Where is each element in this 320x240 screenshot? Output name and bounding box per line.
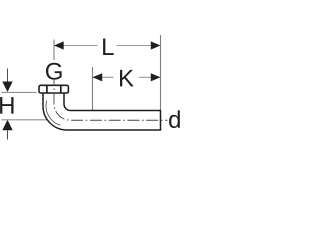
- nut face divider left: [46, 86, 48, 93]
- pipe bend body: [43, 93, 161, 130]
- wire L dimension line left segment: [54, 45, 98, 47]
- node L/K right extension line: [160, 35, 162, 111]
- label G: [46, 63, 62, 80]
- wire K dimension line right segment: [139, 76, 152, 78]
- wire H top extension line: [2, 91, 37, 93]
- label d: [169, 110, 180, 128]
- pipe inner wall thin arc: [46, 101, 60, 126]
- wire L dimension line right segment: [117, 45, 152, 47]
- centerline dash-dot axis: [54, 80, 168, 120]
- arrow L left: [54, 41, 64, 49]
- wire K dimension line left segment: [93, 76, 114, 78]
- arrow H down: [2, 82, 12, 93]
- arrow K left: [93, 73, 103, 81]
- label H: [0, 97, 13, 114]
- wire H bottom extension line: [2, 119, 60, 121]
- node K left extension line: [92, 67, 94, 122]
- nut G body: [39, 85, 68, 93]
- arrow H up: [2, 120, 12, 130]
- node H dimension line upper segment: [7, 69, 9, 82]
- label L: [103, 38, 114, 55]
- arrow K right: [151, 73, 161, 81]
- node L left extension line: [53, 40, 55, 61]
- node H dimension line lower segment: [7, 130, 9, 139]
- arrow L right: [151, 41, 161, 49]
- label K: [120, 70, 134, 87]
- nut face divider right: [60, 86, 62, 93]
